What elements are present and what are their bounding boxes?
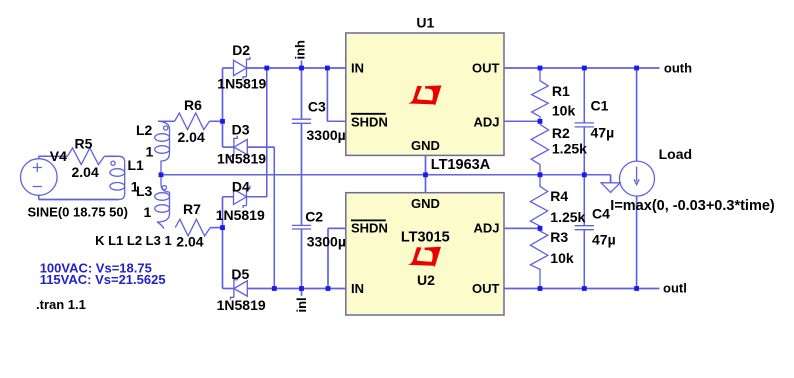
svg-text:.tran 1.1: .tran 1.1 xyxy=(36,297,86,312)
svg-text:K L1 L2 L3 1: K L1 L2 L3 1 xyxy=(95,233,172,248)
svg-text:OUT: OUT xyxy=(472,61,500,76)
svg-text:R4: R4 xyxy=(550,188,568,204)
svg-text:2.04: 2.04 xyxy=(72,164,99,180)
svg-text:C3: C3 xyxy=(308,99,326,115)
svg-text:inh: inh xyxy=(293,40,308,60)
svg-text:SHDN: SHDN xyxy=(351,114,388,129)
svg-text:V4: V4 xyxy=(50,148,67,164)
svg-text:R3: R3 xyxy=(550,229,568,245)
svg-text:1N5819: 1N5819 xyxy=(217,297,266,313)
svg-text:1.25k: 1.25k xyxy=(552,140,587,156)
svg-text:C1: C1 xyxy=(591,98,609,114)
svg-text:U1: U1 xyxy=(416,14,434,30)
svg-text:inl: inl xyxy=(294,297,309,312)
svg-text:2.04: 2.04 xyxy=(178,129,205,145)
svg-text:SHDN: SHDN xyxy=(351,221,388,236)
svg-text:D5: D5 xyxy=(231,266,249,282)
svg-text:GND: GND xyxy=(411,138,440,153)
svg-text:LT1963A: LT1963A xyxy=(431,157,491,173)
svg-text:outh: outh xyxy=(664,60,692,75)
svg-text:U2: U2 xyxy=(417,272,435,288)
svg-text:L3: L3 xyxy=(136,183,153,199)
svg-text:GND: GND xyxy=(411,196,440,211)
svg-text:L1: L1 xyxy=(128,157,145,173)
svg-text:R7: R7 xyxy=(183,201,201,217)
svg-text:OUT: OUT xyxy=(472,281,500,296)
svg-text:SINE(0 18.75 50): SINE(0 18.75 50) xyxy=(28,205,128,220)
svg-text:47µ: 47µ xyxy=(592,232,616,248)
svg-text:115VAC: Vs=21.5625: 115VAC: Vs=21.5625 xyxy=(40,272,166,287)
svg-text:1N5819: 1N5819 xyxy=(216,207,265,223)
svg-text:IN: IN xyxy=(351,61,364,76)
svg-text:D4: D4 xyxy=(232,178,250,194)
svg-text:R2: R2 xyxy=(552,125,570,141)
svg-text:R1: R1 xyxy=(552,83,570,99)
svg-text:1N5819: 1N5819 xyxy=(217,76,266,92)
svg-text:47µ: 47µ xyxy=(591,125,615,141)
svg-text:ADJ: ADJ xyxy=(473,221,499,236)
svg-text:C2: C2 xyxy=(305,209,323,225)
svg-text:C4: C4 xyxy=(592,206,610,222)
svg-text:I=max(0, -0.03+0.3*time): I=max(0, -0.03+0.3*time) xyxy=(610,198,775,214)
svg-text:10k: 10k xyxy=(552,102,576,118)
svg-text:R6: R6 xyxy=(184,97,202,113)
svg-text:10k: 10k xyxy=(550,250,574,266)
svg-text:1: 1 xyxy=(146,144,154,160)
svg-text:2.04: 2.04 xyxy=(176,234,203,250)
svg-text:ADJ: ADJ xyxy=(473,114,499,129)
svg-text:Load: Load xyxy=(659,146,692,162)
svg-text:1: 1 xyxy=(144,204,152,220)
svg-text:IN: IN xyxy=(351,281,364,296)
svg-text:3300µ: 3300µ xyxy=(307,127,346,143)
svg-text:LT3015: LT3015 xyxy=(401,230,450,246)
svg-text:3300µ: 3300µ xyxy=(307,234,346,250)
svg-text:L2: L2 xyxy=(136,122,153,138)
svg-text:1.25k: 1.25k xyxy=(550,209,585,225)
svg-text:D2: D2 xyxy=(232,42,250,58)
svg-text:R5: R5 xyxy=(75,135,93,151)
svg-text:outl: outl xyxy=(663,281,687,296)
svg-text:D3: D3 xyxy=(232,122,250,138)
svg-text:1N5819: 1N5819 xyxy=(217,151,266,167)
